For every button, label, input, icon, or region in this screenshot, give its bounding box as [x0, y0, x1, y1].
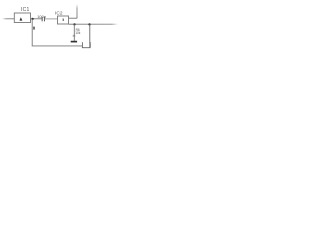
capacitor C2 cup right	[89, 42, 91, 48]
node junction C	[88, 23, 90, 25]
capacitor C2 cup left	[81, 42, 83, 48]
wire branch down	[31, 19, 33, 46]
wire IC1 output	[31, 18, 43, 20]
capacitor C1 plate 2	[43, 17, 45, 21]
svg-text:IC1: IC1	[21, 7, 30, 13]
op-amp U1 box IC1	[14, 13, 30, 23]
pin mark inside IC2	[63, 19, 64, 22]
wire gnd stub	[73, 24, 75, 41]
net label mark	[33, 27, 35, 30]
wire output rail	[69, 23, 119, 26]
wire C1 to IC2	[45, 18, 58, 20]
node junction B	[73, 23, 75, 25]
svg-text:10k: 10k	[75, 31, 81, 35]
pin label A inside IC1	[19, 17, 22, 20]
wire input left	[2, 17, 15, 20]
regulator U2 box IC2	[58, 16, 69, 24]
label small mark row3	[73, 35, 76, 37]
wire IC2 to riser	[69, 17, 78, 19]
node junction A	[31, 18, 33, 20]
wire bottom rail	[32, 45, 83, 47]
wire capacitor lead down	[89, 24, 91, 47]
capacitor C2 cup bottom	[82, 47, 90, 49]
capacitor C1 plate 1	[41, 17, 43, 21]
ground	[71, 41, 77, 43]
wire riser up	[76, 4, 79, 18]
